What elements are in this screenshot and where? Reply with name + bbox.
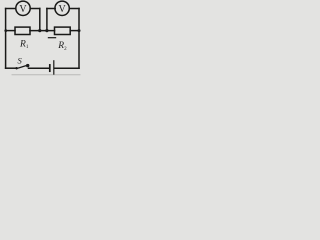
svg-text:V: V <box>19 4 27 15</box>
wire: V2 right stub <box>69 8 79 10</box>
switch S pivot dot <box>15 67 17 69</box>
scan shadow streak at bottom <box>12 74 80 76</box>
wire: bottom left segment to switch <box>6 67 17 69</box>
svg-text:S: S <box>17 56 22 66</box>
wire: top-left stub to voltmeter V1 <box>6 8 16 10</box>
wire: switch to battery <box>29 67 50 69</box>
wire: vertical from V1 down to node A <box>39 9 41 31</box>
wire: right rail vertical <box>78 9 80 69</box>
resistor R2 <box>55 27 71 34</box>
resistor R1 <box>15 27 30 34</box>
node A junction dot <box>38 29 41 32</box>
wire: main row middle segment <box>30 30 55 32</box>
battery negative plate (short) <box>49 65 51 71</box>
wire: left rail vertical <box>5 9 7 69</box>
junction dot left rail <box>4 29 7 32</box>
svg-text:R2: R2 <box>57 41 67 52</box>
wire: V2 left stub <box>47 8 55 10</box>
voltmeter V1 <box>16 1 30 15</box>
wire: main row left segment <box>6 30 15 32</box>
stray scan mark under node B <box>48 37 55 39</box>
battery positive plate (long) <box>53 61 55 75</box>
svg-text:V: V <box>58 4 66 15</box>
wire: vertical from V2 down to node B <box>46 9 48 31</box>
wire: main row right segment <box>70 30 79 32</box>
switch S lever <box>17 65 29 69</box>
voltmeter V2 <box>55 1 69 15</box>
junction dot right rail <box>78 29 81 32</box>
wire: battery to right rail <box>55 67 80 69</box>
switch S contact blob <box>26 64 29 67</box>
node B junction dot <box>45 29 48 32</box>
svg-text:R1: R1 <box>19 40 29 51</box>
wire: V1 right stub <box>30 8 40 10</box>
